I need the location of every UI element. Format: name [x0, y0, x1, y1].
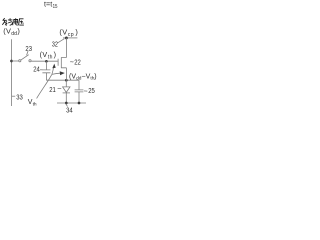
- wire Vcp node to transistor drain: [61, 38, 66, 58]
- svg-text:): ): [94, 73, 96, 80]
- svg-text:cp: cp: [68, 32, 74, 38]
- svg-text:24: 24: [33, 65, 40, 74]
- node junction dot bottom right: [78, 102, 81, 105]
- svg-text:22: 22: [74, 58, 81, 67]
- label 25 with tilde leader: [84, 90, 87, 92]
- svg-text:15: 15: [53, 4, 58, 10]
- label 21 with leader dash: [58, 88, 62, 90]
- label 34 with leader: [66, 104, 68, 107]
- svg-text:(V: (V: [3, 27, 11, 36]
- svg-text:34: 34: [66, 106, 73, 115]
- wire mid rail to diode 21 anode: [65, 80, 67, 87]
- wire mid rail to capacitor 25: [78, 80, 80, 90]
- wire switch to transistor gate: [31, 60, 58, 62]
- svg-text:33: 33: [16, 93, 23, 102]
- label 23 with leader: [27, 51, 29, 55]
- svg-text:21: 21: [49, 85, 56, 94]
- label 24 with leader arrow: [40, 69, 43, 71]
- transistor 22 gate bar: [57, 59, 59, 66]
- node junction dot bottom left: [65, 102, 68, 105]
- diode 21 triangle: [63, 87, 70, 93]
- node 32 junction dot: [65, 36, 68, 39]
- diode 21 cathode bar: [63, 92, 70, 94]
- capacitor 25 plates: [75, 90, 84, 92]
- label (Vth): [40, 50, 56, 60]
- node junction dot at switch tap: [10, 60, 13, 63]
- svg-text:32: 32: [52, 40, 58, 49]
- label Vth with forked arrow leader: [37, 74, 52, 98]
- wire 33 : left vertical rail from (Vdd): [11, 39, 13, 106]
- transistor 22 channel bar: [60, 57, 62, 68]
- label reference voltage 参考电压 (CJK drawn): [2, 18, 24, 25]
- svg-text:−V: −V: [82, 73, 91, 80]
- node junction dot on mid rail: [65, 79, 68, 82]
- capacitor 24 plates: [42, 70, 50, 73]
- svg-text:): ): [75, 27, 77, 36]
- svg-text:(V: (V: [40, 50, 48, 59]
- svg-text:25: 25: [88, 86, 95, 95]
- svg-text:th: th: [48, 54, 53, 60]
- wire capacitor 24 to rail: [45, 73, 47, 80]
- label t=t15 (timing annotation): [44, 0, 58, 10]
- svg-text:23: 23: [25, 44, 32, 53]
- wire diode 21 to bottom rail: [65, 93, 67, 103]
- label (Vcp) supply name: [59, 27, 77, 37]
- svg-text:(V: (V: [59, 27, 67, 36]
- svg-text:): ): [54, 50, 56, 59]
- wire capacitor 25 to bottom rail: [78, 92, 80, 103]
- svg-text:th: th: [33, 101, 37, 107]
- label (Vdd-Vth): [69, 73, 97, 81]
- transistor 22 source lead: [61, 68, 66, 80]
- label 22 with tilde leader: [70, 61, 73, 63]
- label 32 with leader: [58, 39, 65, 43]
- wire node to capacitor 24: [45, 61, 47, 69]
- switch 23 lever: [21, 55, 29, 60]
- label 33 with leader tick: [12, 95, 15, 97]
- wire Vcp rail stub: [63, 37, 77, 39]
- wire to switch: [12, 60, 19, 62]
- switch 23 contact circle left: [19, 60, 21, 62]
- node (Vth) junction dot: [45, 60, 48, 63]
- wire mid rail (Vdd-Vth) net: [46, 79, 79, 81]
- svg-text:t=t: t=t: [44, 0, 52, 9]
- svg-text:dd: dd: [11, 31, 17, 37]
- label (Vdd) supply name: [3, 27, 20, 38]
- wire 34 bottom rail: [57, 102, 86, 104]
- switch 23 contact circle right: [29, 60, 31, 62]
- svg-text:): ): [17, 27, 19, 36]
